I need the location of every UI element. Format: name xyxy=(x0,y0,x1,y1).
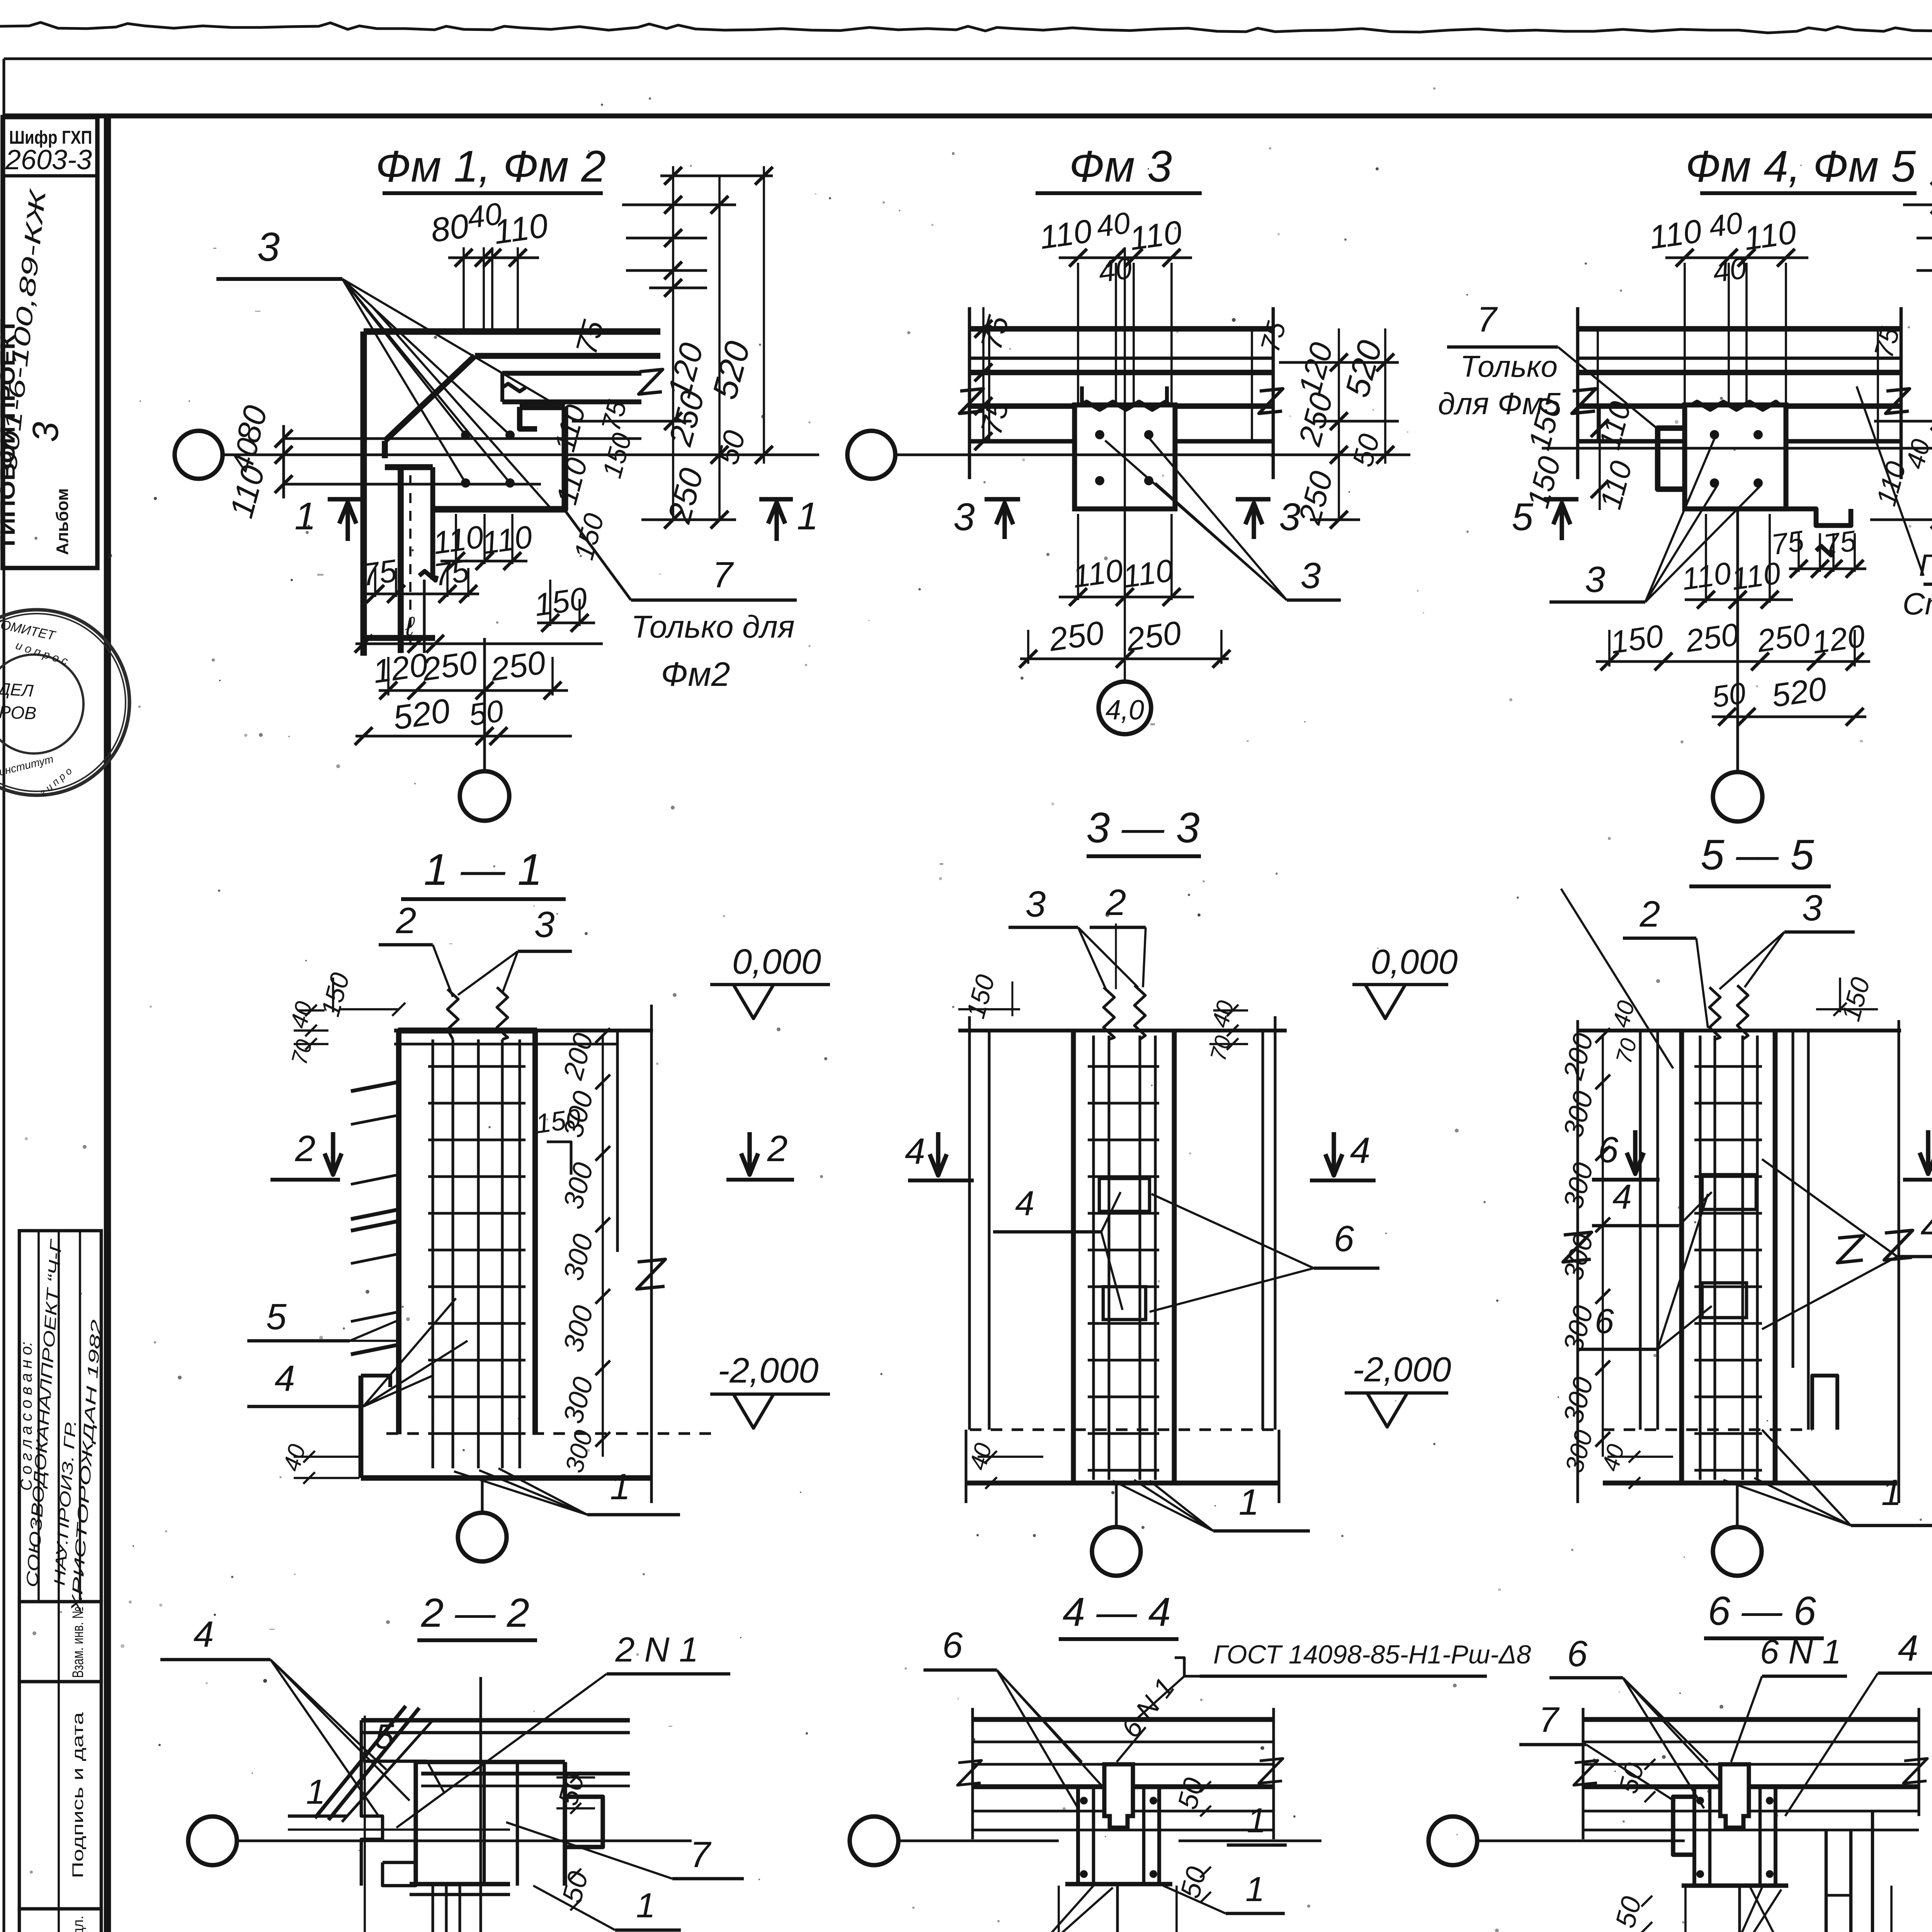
svg-text:1: 1 xyxy=(1245,1870,1265,1909)
fm12 section mark 1 right xyxy=(759,497,793,501)
svg-text:Фм 3: Фм 3 xyxy=(1069,142,1172,191)
d44 I-beam top xyxy=(1102,1764,1104,1787)
fm12 axis vertical bottom xyxy=(483,638,486,771)
svg-text:-2,000: -2,000 xyxy=(718,1351,819,1390)
fm12 dim 110 110 below column xyxy=(455,514,457,564)
svg-text:-2,000: -2,000 xyxy=(1352,1350,1451,1389)
svg-text:50: 50 xyxy=(1710,676,1748,714)
svg-text:40: 40 xyxy=(1094,206,1132,244)
s55 top slab lines xyxy=(1577,1029,1901,1032)
svg-text:250: 250 xyxy=(488,644,548,688)
fm3 wall band xyxy=(969,326,1273,332)
svg-text:40: 40 xyxy=(1711,251,1748,289)
fm12 top dim line xyxy=(448,256,539,259)
s11 top dim 150 bracket xyxy=(340,1008,398,1010)
fm3 dim 250 250 xyxy=(1020,657,1229,660)
d44 wall band xyxy=(973,1717,1274,1722)
fm3 band end verticals xyxy=(968,307,971,479)
svg-text:4: 4 xyxy=(1920,1206,1932,1249)
d66 axis line xyxy=(1477,1839,1685,1842)
svg-text:для Фм5: для Фм5 xyxy=(1438,386,1561,421)
svg-text:2: 2 xyxy=(767,1128,788,1169)
svg-text:110: 110 xyxy=(1121,553,1175,595)
s11 stirrup horizontals xyxy=(428,1065,526,1068)
s33 wavy rebars top xyxy=(1104,987,1114,1039)
svg-text:2 — 2: 2 — 2 xyxy=(421,1590,529,1636)
d66 band end marks xyxy=(1582,1708,1584,1839)
svg-text:Подпись и дата: Подпись и дата xyxy=(70,1712,87,1878)
d66 right step xyxy=(1825,1830,1828,1932)
fm12 lower dim chain line1 xyxy=(355,642,603,645)
s55 axis circle xyxy=(1713,1527,1762,1576)
fm3 dim 110 110 below xyxy=(1077,514,1079,600)
fm12 right dim verticals xyxy=(672,166,674,520)
box vzam inv no xyxy=(19,1602,101,1682)
svg-text:6: 6 xyxy=(1567,1633,1588,1674)
svg-text:250: 250 xyxy=(1755,617,1812,659)
s11 dim chain right 200 300 xyxy=(602,1036,604,1457)
svg-text:150: 150 xyxy=(532,581,589,623)
svg-text:3: 3 xyxy=(25,422,66,442)
d66 wall band xyxy=(1583,1717,1919,1722)
fm45 dim row 150 250 250 120 xyxy=(1596,660,1870,663)
d66 rebar dots xyxy=(1696,1797,1704,1804)
svg-text:75: 75 xyxy=(1769,524,1806,561)
fm12 near-axis lines xyxy=(284,437,641,440)
svg-text:ДЕЛ: ДЕЛ xyxy=(0,679,34,701)
fm45 top dims xyxy=(1684,263,1686,405)
svg-text:2: 2 xyxy=(1639,894,1660,935)
svg-text:6 N 1: 6 N 1 xyxy=(1760,1633,1841,1671)
fm45 wall band xyxy=(1578,326,1901,332)
fm12 axis circle left xyxy=(175,431,223,479)
svg-text:2: 2 xyxy=(295,1128,316,1169)
d44 axis line xyxy=(898,1839,1059,1842)
s11 wavy rebar tops xyxy=(447,989,458,1039)
fm3 right dim chain xyxy=(1338,328,1340,520)
fm45 lower right step xyxy=(1786,509,1851,526)
svg-text:75: 75 xyxy=(359,553,399,593)
svg-text:ℓ: ℓ xyxy=(405,611,415,641)
d22 slanted panel xyxy=(315,1706,406,1818)
s33 column outline xyxy=(1071,1031,1076,1483)
svg-text:5: 5 xyxy=(375,1718,395,1756)
s55 grid right vertical xyxy=(1897,1020,1900,1503)
fm45 column xyxy=(1685,405,1786,509)
drawing frame left xyxy=(104,116,111,1932)
s55 lower right step xyxy=(1812,1376,1837,1430)
fm3 column xyxy=(1075,405,1175,509)
svg-text:5 — 5: 5 — 5 xyxy=(1701,831,1814,879)
fm45 leader paneli stenovye xyxy=(1857,386,1923,576)
fm12 plan outline xyxy=(364,328,660,335)
outer border left xyxy=(2,59,5,1932)
fm3 top dim verticals xyxy=(1077,263,1079,405)
svg-text:120: 120 xyxy=(1810,618,1867,660)
svg-text:Только для: Только для xyxy=(631,609,794,645)
svg-text:250: 250 xyxy=(1046,614,1106,658)
fm45 rebar dots xyxy=(1710,430,1719,439)
svg-text:250: 250 xyxy=(1683,617,1741,659)
fm12 lower panel outline xyxy=(398,467,404,653)
fm3 rebar dots xyxy=(1095,430,1104,439)
svg-text:40: 40 xyxy=(1096,251,1134,289)
fm45 axis vertical bottom xyxy=(1736,509,1739,772)
svg-text:4: 4 xyxy=(1015,1184,1034,1223)
fm12 section mark 1 left xyxy=(328,497,361,501)
fm3 section mark 3 left xyxy=(985,497,1020,501)
svg-text:4: 4 xyxy=(905,1131,925,1172)
svg-text:6 — 6: 6 — 6 xyxy=(1708,1588,1816,1634)
fm12 column outline xyxy=(435,407,565,509)
fm3 center vertical xyxy=(1124,247,1126,680)
svg-text:150: 150 xyxy=(534,1103,583,1139)
s33 inner rebar verticals xyxy=(1092,1036,1095,1480)
d22 top slab lines xyxy=(361,1718,630,1722)
svg-text:110: 110 xyxy=(1070,553,1125,595)
s11 axis circle xyxy=(458,1513,507,1561)
fm45 section mark 5 left xyxy=(1544,497,1578,501)
svg-text:110: 110 xyxy=(491,206,550,252)
d22 lower extension xyxy=(431,1886,434,1932)
svg-text:0,000: 0,000 xyxy=(732,942,821,981)
s33 side wall verticals xyxy=(968,1016,971,1430)
svg-text:2 N 1: 2 N 1 xyxy=(615,1631,698,1669)
svg-text:3: 3 xyxy=(1802,888,1823,929)
svg-text:520: 520 xyxy=(1769,670,1829,714)
s33 inserts xyxy=(1099,1179,1150,1211)
svg-text:Панели: Панели xyxy=(1919,548,1932,582)
svg-text:110: 110 xyxy=(1680,556,1733,597)
fm3 axis circle left xyxy=(847,431,895,479)
s11 right wall lines xyxy=(616,1031,619,1252)
fm12 dim 150 xyxy=(549,580,551,626)
fm12 rebar dots xyxy=(461,430,470,440)
fm12 top dim verticals xyxy=(463,247,465,332)
torn paper top edge xyxy=(0,22,1932,35)
svg-text:4: 4 xyxy=(194,1614,214,1655)
svg-text:4,0: 4,0 xyxy=(1105,695,1144,726)
fm12 dim 75 75 xyxy=(374,568,376,597)
s55 wavy rebars xyxy=(1709,987,1720,1039)
svg-text:1: 1 xyxy=(610,1466,631,1507)
s33 dashed level line xyxy=(970,1428,1275,1431)
svg-text:Альбом: Альбом xyxy=(53,488,72,555)
svg-text:2: 2 xyxy=(396,900,417,941)
s55 inserts xyxy=(1702,1175,1756,1209)
d22 mid slab lines xyxy=(421,1772,630,1776)
fm3 leader 3 bottom xyxy=(1287,599,1341,602)
fm3 band second verticals xyxy=(988,329,990,441)
svg-text:50: 50 xyxy=(467,694,506,733)
s11 footing dashed level xyxy=(386,1432,711,1435)
svg-text:3: 3 xyxy=(1301,555,1321,596)
fm45 axis circle bottom xyxy=(1713,772,1762,821)
s11 left panels xyxy=(351,1082,399,1219)
svg-text:1: 1 xyxy=(1881,1472,1902,1513)
svg-text:7: 7 xyxy=(690,1834,712,1875)
svg-text:75: 75 xyxy=(432,553,471,593)
d44 column profile xyxy=(1076,1787,1080,1884)
svg-text:Фм 1, Фм 2: Фм 1, Фм 2 xyxy=(376,142,606,191)
fm3 axis circle 4.0 xyxy=(1099,682,1151,734)
svg-text:4: 4 xyxy=(1612,1178,1632,1216)
fm45 band end verticals xyxy=(1576,307,1580,479)
svg-text:Инв. № подл.: Инв. № подл. xyxy=(70,1916,87,1932)
fm3 section mark 3 right xyxy=(1236,497,1270,501)
left boxes divider xyxy=(58,1602,60,1932)
fm3 top dim line xyxy=(1059,256,1192,259)
d22 axis lines xyxy=(237,1839,692,1842)
s33 axis circle xyxy=(1092,1527,1141,1576)
s33 stirrups xyxy=(1088,1065,1159,1068)
svg-text:110: 110 xyxy=(1037,213,1094,256)
s55 left dim chain 200 300 xyxy=(1576,1020,1579,1503)
s55 footing bottom xyxy=(1603,1481,1897,1486)
svg-text:3: 3 xyxy=(1026,884,1046,925)
fm12 right wall panel zig xyxy=(502,384,526,391)
fm45 bottom dims 110 110 75 75 xyxy=(1705,514,1707,603)
svg-text:Только: Только xyxy=(1460,349,1558,383)
svg-text:110: 110 xyxy=(1647,213,1704,256)
svg-text:5: 5 xyxy=(266,1296,287,1337)
fm12 z marks xyxy=(639,369,663,394)
svg-text:6: 6 xyxy=(1595,1302,1614,1341)
svg-text:ТИПОВОЙ ПРОЕКТ: ТИПОВОЙ ПРОЕКТ xyxy=(0,319,19,551)
d66 axis circle left xyxy=(1429,1816,1477,1865)
svg-text:1: 1 xyxy=(636,1886,655,1925)
header band line xyxy=(4,114,1932,119)
d44 band end marks xyxy=(971,1708,974,1839)
svg-text:2603-3: 2603-3 xyxy=(5,145,92,175)
svg-text:7: 7 xyxy=(1539,1700,1560,1740)
svg-text:3: 3 xyxy=(953,495,975,539)
d22 right rounded insert xyxy=(565,1797,603,1847)
s11 dim 150 small xyxy=(547,1142,571,1175)
s11 grid vertical right xyxy=(650,1005,653,1503)
svg-text:1: 1 xyxy=(306,1773,325,1811)
svg-text:1 — 1: 1 — 1 xyxy=(424,845,543,895)
svg-text:4 — 4: 4 — 4 xyxy=(1063,1590,1171,1635)
svg-text:520: 520 xyxy=(391,691,452,737)
s55 inner rebars xyxy=(1699,1036,1701,1480)
s55 dashed level xyxy=(1603,1428,1812,1431)
svg-text:250: 250 xyxy=(1124,614,1184,658)
svg-text:75: 75 xyxy=(1821,524,1858,561)
svg-text:5: 5 xyxy=(1512,495,1533,539)
svg-text:110: 110 xyxy=(1127,214,1184,257)
s33 top slab lines xyxy=(958,1029,1287,1032)
svg-text:Стеновые: Стеновые xyxy=(1903,587,1932,621)
fm45 column left bracket xyxy=(1658,428,1684,489)
svg-text:110: 110 xyxy=(480,519,534,561)
fm12 right dim horizontals xyxy=(660,174,773,177)
s55 leader 7 tolko top left xyxy=(1561,889,1673,1068)
s55 column outline xyxy=(1679,1031,1684,1483)
d22 left step shapes xyxy=(361,1720,383,1886)
fm45 dim row 50 520 xyxy=(1712,715,1866,718)
s55 stirrups xyxy=(1694,1065,1762,1068)
fm12 axis circle bottom xyxy=(460,771,509,821)
svg-text:7: 7 xyxy=(713,554,734,595)
s11 inner rebar verticals xyxy=(431,1039,434,1468)
box inv no podl xyxy=(19,1909,101,1932)
svg-text:Фм2: Фм2 xyxy=(661,655,730,693)
svg-text:40: 40 xyxy=(1707,206,1745,244)
svg-text:3 — 3: 3 — 3 xyxy=(1086,804,1199,852)
d22 block outline xyxy=(413,1762,418,1886)
svg-text:150: 150 xyxy=(1608,618,1665,660)
svg-text:4: 4 xyxy=(275,1358,295,1399)
fm12 dim row 120 250 250 xyxy=(379,689,568,692)
s11 column outline xyxy=(396,1031,401,1434)
s55 z mark left xyxy=(1563,1232,1592,1262)
fm12 bottom edge xyxy=(364,635,435,641)
svg-text:3: 3 xyxy=(257,224,280,270)
svg-text:110: 110 xyxy=(1742,214,1798,257)
svg-text:РОВ: РОВ xyxy=(0,702,37,723)
svg-text:ГОСТ 14098-85-Н1-Рш-Δ8: ГОСТ 14098-85-Н1-Рш-Δ8 xyxy=(1213,1640,1531,1669)
s11 top slab lines xyxy=(394,1029,653,1032)
svg-text:0,000: 0,000 xyxy=(1371,943,1458,981)
svg-text:Взам. инв. №: Взам. инв. № xyxy=(70,1607,87,1678)
fm3 z break marks xyxy=(959,389,983,413)
box podpis i data xyxy=(19,1682,101,1909)
svg-text:1: 1 xyxy=(294,495,316,538)
d44 rebar dots xyxy=(1080,1797,1088,1804)
svg-text:7: 7 xyxy=(1477,300,1498,339)
svg-text:1: 1 xyxy=(1247,1801,1266,1840)
d22 axis circle left xyxy=(188,1816,237,1865)
svg-text:3: 3 xyxy=(534,904,555,945)
fm12 lower panel inner dash xyxy=(409,475,412,645)
svg-text:80: 80 xyxy=(428,206,471,250)
soglasovano block xyxy=(19,1231,101,1602)
svg-text:250: 250 xyxy=(420,644,480,688)
svg-text:1: 1 xyxy=(797,495,818,538)
fm45 axis line xyxy=(1542,447,1932,449)
svg-text:6: 6 xyxy=(1334,1218,1354,1259)
svg-text:4: 4 xyxy=(1350,1130,1371,1171)
outer border top xyxy=(4,57,1932,60)
d66 column profile xyxy=(1692,1787,1696,1886)
fm12 left dim ticks xyxy=(282,425,285,498)
svg-text:Фм 4, Фм 5: Фм 4, Фм 5 xyxy=(1685,142,1916,191)
s11 footing outline xyxy=(359,1376,364,1478)
d66 left rounded insert xyxy=(1673,1797,1694,1855)
svg-text:110: 110 xyxy=(1729,556,1783,597)
fm3 axis line xyxy=(895,453,1321,456)
s55 walls xyxy=(1639,1031,1641,1430)
left margin box Shifr GHP xyxy=(3,117,97,568)
fm12 dim row 520 50 xyxy=(355,735,572,737)
fm12 leader 7 tolko dlya FM2 xyxy=(564,509,631,600)
fm12 leader fan 3 xyxy=(342,279,466,435)
svg-text:1: 1 xyxy=(1239,1482,1259,1523)
round stamp xyxy=(0,610,129,795)
svg-text:6: 6 xyxy=(942,1625,963,1666)
s33 footing bottom xyxy=(966,1481,1279,1486)
d44 axis circle left xyxy=(850,1816,898,1865)
svg-text:4: 4 xyxy=(1898,1628,1918,1669)
fm45 inner band verticals xyxy=(1597,329,1599,441)
svg-text:3: 3 xyxy=(1585,559,1605,600)
fm12 long diagonals xyxy=(342,279,564,410)
svg-text:6: 6 xyxy=(1598,1129,1619,1170)
fm12 wall inner lines right xyxy=(502,371,641,376)
fm45 z break marks xyxy=(1572,389,1596,413)
fm12 axis line horizontal xyxy=(223,453,819,456)
svg-text:2: 2 xyxy=(1105,882,1126,923)
